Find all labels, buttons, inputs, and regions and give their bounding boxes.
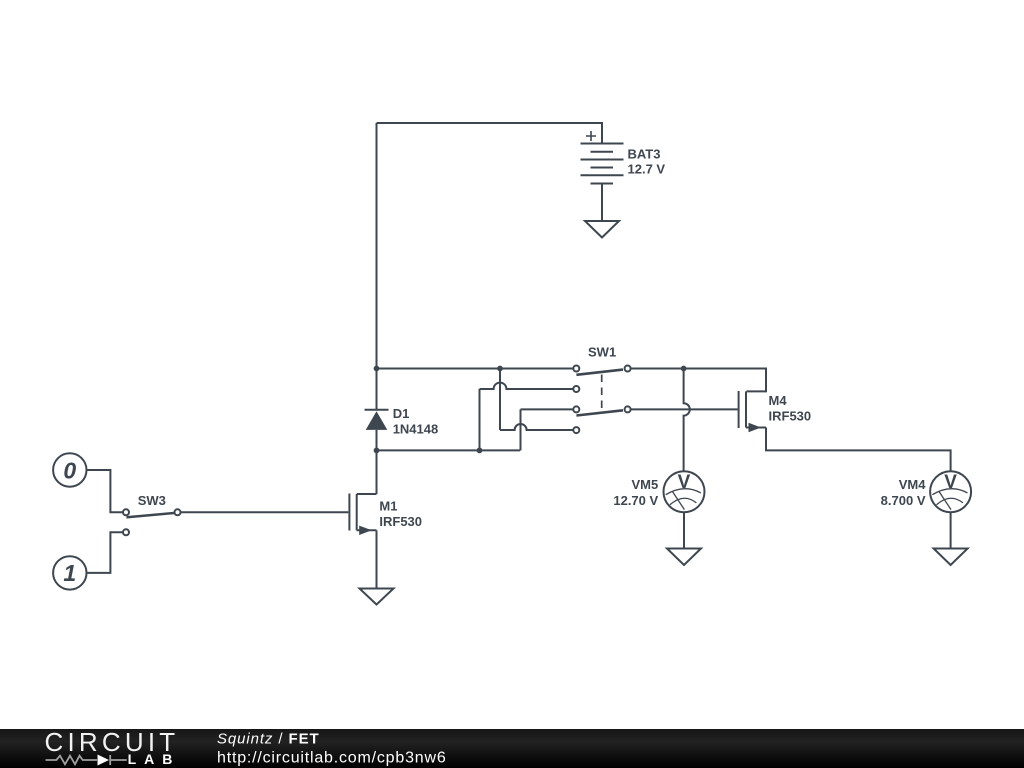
- wire top node to SW1 throw1: [377, 368, 574, 370]
- svg-text:M1: M1: [379, 499, 397, 514]
- wire bottom node: [377, 449, 521, 451]
- svg-text:V: V: [944, 472, 957, 493]
- wire M4 source to VM4: [766, 428, 951, 472]
- svg-text:http://circuitlab.com/cpb3nw6: http://circuitlab.com/cpb3nw6: [217, 750, 447, 767]
- diode D1: [365, 369, 389, 451]
- wire throw3 link: [521, 409, 574, 450]
- switch SW1: [573, 366, 630, 434]
- ground battery: [585, 221, 619, 238]
- svg-text:12.70 V: 12.70 V: [613, 493, 658, 508]
- svg-text:VM4: VM4: [899, 477, 927, 492]
- svg-text:D1: D1: [393, 406, 410, 421]
- wire battery top loop: [377, 123, 603, 144]
- svg-text:IRF530: IRF530: [379, 514, 422, 529]
- svg-text:8.700 V: 8.700 V: [881, 493, 926, 508]
- wire M1 source to ground: [376, 530, 378, 588]
- wire throw4 link with hop: [500, 369, 574, 431]
- wire left vertical drop: [376, 123, 378, 369]
- node dot VM5 branch: [681, 366, 687, 372]
- svg-text:SW1: SW1: [588, 345, 616, 360]
- ground M1: [360, 589, 394, 605]
- voltmeter VM4: [930, 471, 971, 512]
- wire SW3 pole to M1 gate: [181, 511, 349, 513]
- node dot D1 anode junction: [374, 448, 380, 454]
- transistor M1: [349, 494, 376, 536]
- node 0 terminal: [53, 453, 86, 486]
- footer bar: [0, 729, 1024, 768]
- svg-text:1: 1: [63, 560, 76, 586]
- wire VM5 to ground: [683, 512, 685, 548]
- battery BAT3 plates: [581, 131, 624, 184]
- node dot throw4 branch: [497, 366, 503, 372]
- svg-text:1N4148: 1N4148: [393, 421, 439, 436]
- voltmeter VM5: [664, 471, 705, 512]
- node dot D1 cathode junction: [374, 366, 380, 372]
- svg-text:Squintz / FET: Squintz / FET: [217, 731, 320, 748]
- ground VM4: [934, 549, 968, 566]
- switch SW3: [123, 509, 181, 535]
- node dot throw2 branch: [477, 448, 483, 454]
- svg-text:12.7 V: 12.7 V: [628, 162, 666, 177]
- wire VM5 branch with hop: [684, 369, 690, 472]
- wire throw2 link with hop: [480, 383, 574, 451]
- svg-text:SW3: SW3: [138, 493, 166, 508]
- svg-text:M4: M4: [769, 393, 788, 408]
- logo squiggle resistor and diode: [46, 755, 127, 766]
- svg-text:BAT3: BAT3: [628, 147, 661, 162]
- ground VM5: [667, 549, 701, 566]
- wire pole2 to M4 gate: [631, 408, 738, 410]
- node 1 terminal: [53, 556, 86, 589]
- wire M1 drain: [376, 450, 378, 494]
- wire VM4 to ground: [950, 512, 952, 548]
- svg-text:VM5: VM5: [631, 477, 658, 492]
- wire node1 to SW3: [87, 532, 124, 573]
- transistor M4: [739, 391, 766, 432]
- svg-text:LAB: LAB: [128, 751, 181, 767]
- svg-text:0: 0: [63, 457, 76, 483]
- svg-text:V: V: [678, 472, 691, 493]
- wire battery to ground: [601, 184, 603, 222]
- svg-text:IRF530: IRF530: [769, 409, 812, 424]
- wire node0 to SW3: [87, 470, 124, 512]
- wire pole1 to M4 drain: [631, 369, 766, 392]
